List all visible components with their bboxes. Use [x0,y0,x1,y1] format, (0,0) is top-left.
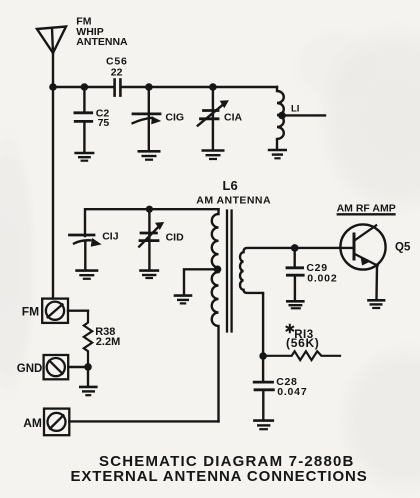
svg-text:GND: GND [17,363,43,375]
svg-text:L6: L6 [223,178,238,193]
svg-text:FM: FM [22,304,39,318]
svg-text:AM RF AMP: AM RF AMP [337,202,396,214]
svg-text:0.047: 0.047 [277,386,307,398]
svg-text:EXTERNAL ANTENNA CONNECTIONS: EXTERNAL ANTENNA CONNECTIONS [71,468,368,485]
svg-text:CIJ: CIJ [102,230,119,242]
svg-text:ANTENNA: ANTENNA [76,36,128,48]
svg-text:CIG: CIG [165,112,184,124]
svg-text:CID: CID [166,232,185,244]
svg-text:2.2M: 2.2M [96,336,120,348]
svg-text:22: 22 [111,67,123,79]
svg-text:AM: AM [23,416,42,430]
svg-text:Q5: Q5 [395,242,411,254]
svg-text:CIA: CIA [224,112,243,124]
svg-text:AM ANTENNA: AM ANTENNA [196,194,271,206]
svg-text:C56: C56 [106,55,128,67]
svg-text:75: 75 [98,117,110,129]
svg-text:LI: LI [291,103,299,114]
svg-text:(56K): (56K) [286,336,320,350]
svg-text:0.002: 0.002 [307,273,337,285]
